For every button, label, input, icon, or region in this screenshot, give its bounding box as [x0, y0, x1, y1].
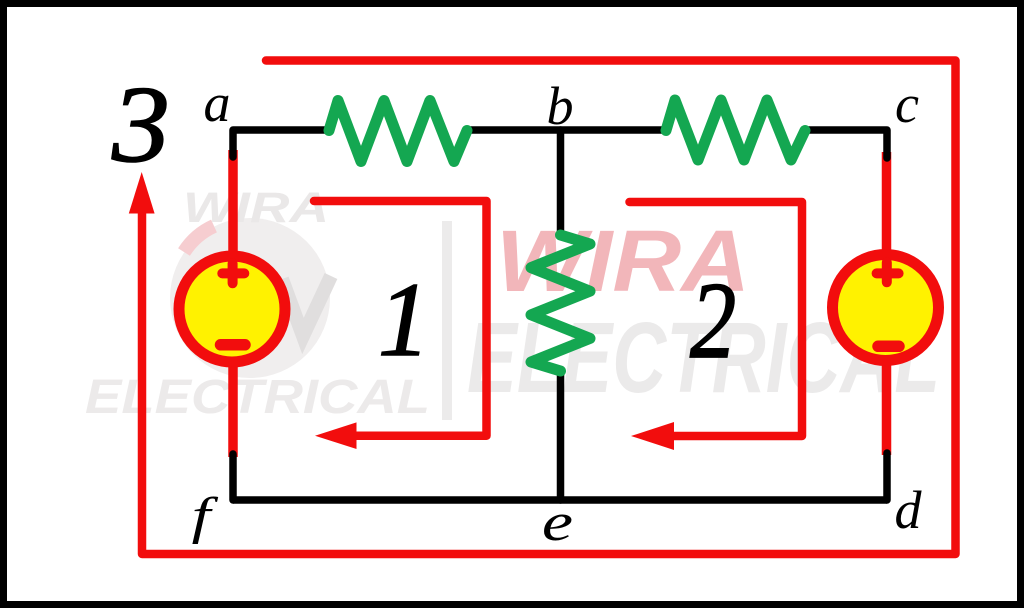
node e label — [542, 492, 573, 552]
svg-text:ELECTRICAL: ELECTRICAL — [85, 371, 430, 424]
watermark pink arc — [184, 226, 214, 252]
resistor R3 (b-e) — [531, 235, 590, 371]
watermark gray logo circle — [170, 218, 330, 378]
wire node b drop — [557, 130, 565, 235]
svg-text:d: d — [895, 480, 923, 540]
svg-text:1: 1 — [378, 260, 430, 378]
svg-text:a: a — [204, 73, 231, 133]
wire node d stub — [883, 453, 891, 500]
loop 3 arrowhead — [129, 172, 155, 214]
voltage source V1 circle — [179, 256, 285, 362]
label 3 — [111, 65, 170, 185]
wire node c corner — [804, 130, 887, 158]
svg-text:b: b — [547, 76, 574, 136]
voltage source V1 minus — [221, 339, 246, 351]
loop 1 arrowhead — [315, 422, 357, 449]
wire red source V2 lead — [882, 152, 892, 455]
loop 2 arrowhead — [631, 422, 674, 450]
watermark gray bar — [442, 221, 452, 420]
resistor R2 (b-c) — [666, 100, 805, 160]
voltage source V2 minus — [878, 341, 899, 353]
svg-text:2: 2 — [690, 260, 736, 381]
wire bottom — [233, 496, 887, 504]
loop 2 red path — [630, 202, 803, 436]
svg-text:e: e — [542, 492, 573, 552]
wire node e stub — [557, 371, 565, 500]
wire red source V1 lead — [228, 150, 238, 457]
voltage source V2 circle — [833, 255, 939, 361]
label 1 — [378, 260, 430, 378]
svg-text:WIRA: WIRA — [183, 184, 329, 232]
voltage source V2 plus — [877, 262, 899, 282]
voltage source V1 plus — [222, 263, 244, 283]
svg-text:3: 3 — [111, 65, 170, 185]
svg-text:c: c — [895, 74, 919, 134]
resistor R1 (a-b) — [329, 101, 467, 162]
wire node f stub — [229, 454, 237, 500]
label 2 — [690, 260, 736, 381]
watermark gray logo check — [282, 276, 331, 336]
node f label — [192, 487, 219, 545]
loop 1 red path — [314, 201, 487, 436]
wire top middle segment — [466, 126, 667, 134]
loop 3 outer red path — [142, 61, 956, 555]
wire node a corner — [233, 130, 330, 157]
